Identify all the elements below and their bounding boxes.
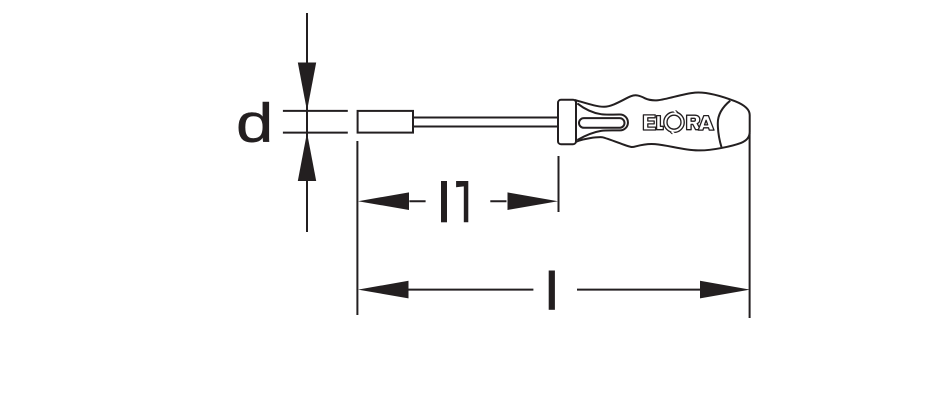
svg-text:d: d — [236, 91, 273, 153]
